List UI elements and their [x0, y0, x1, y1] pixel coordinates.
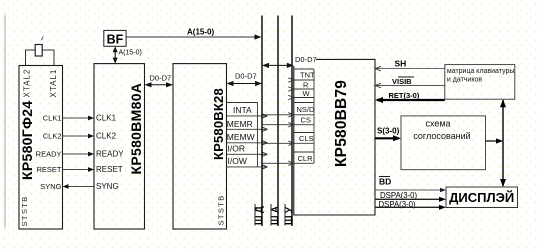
wire CLS to buses — [262, 142, 294, 144]
svg-text:XTAL2: XTAL2 — [23, 69, 32, 98]
svg-text:КР580ВК28: КР580ВК28 — [211, 88, 226, 160]
svg-text:D0-D7: D0-D7 — [295, 55, 317, 64]
crystal ZQ1 — [35, 45, 42, 57]
IC U2 CPU KR580VM80A — [94, 64, 145, 229]
svg-text:D0-D7: D0-D7 — [150, 74, 172, 83]
pin INTA wire — [227, 115, 267, 117]
IC U1 clock generator KR580GF24 — [19, 66, 63, 230]
pin W arrow — [288, 95, 294, 99]
wire CLR to buses — [262, 162, 294, 164]
wire CS to buses — [262, 124, 294, 126]
svg-text:RESET: RESET — [36, 165, 61, 174]
U4 pin cell column separator — [313, 69, 315, 163]
wire keyboard-display vertical — [502, 100, 504, 186]
svg-text:CLK2: CLK2 — [43, 132, 62, 141]
svg-text:CLR: CLR — [298, 154, 314, 163]
bus label SHD — [254, 204, 256, 226]
wire CLK2 U1-U2 — [63, 135, 94, 137]
matching circuit box — [401, 116, 486, 170]
svg-text:NS/D: NS/D — [297, 105, 316, 114]
faint page fold line — [4, 15, 6, 228]
wire RESET U1-U2 — [63, 169, 94, 171]
svg-text:CLK1: CLK1 — [43, 114, 62, 123]
pin MEMR wire — [227, 128, 267, 130]
bus D0-D7 U2-U3 double arrow — [146, 84, 172, 86]
svg-text:DSPA(3-0): DSPA(3-0) — [380, 191, 418, 200]
svg-text:A(15-0): A(15-0) — [119, 50, 142, 57]
bus A(15-0) BF-U2 vertical double arrow — [114, 48, 116, 62]
wire SYNG U2-U1 — [64, 186, 94, 188]
svg-text:RET(3-0): RET(3-0) — [389, 91, 420, 100]
bus D0-D7 data bus to U4 double arrow — [264, 64, 293, 66]
svg-text:КР580ВМ80А: КР580ВМ80А — [128, 83, 144, 175]
keyboard matrix box — [445, 65, 515, 100]
svg-text:ША: ША — [270, 204, 281, 225]
svg-text:матрица клавиатуры: матрица клавиатуры — [447, 68, 515, 75]
svg-text:INTA: INTA — [233, 105, 252, 115]
svg-text:W: W — [303, 89, 311, 98]
buffer BF box — [104, 30, 126, 46]
svg-text:ШД: ШД — [254, 204, 265, 225]
wire matching to vertical — [486, 140, 502, 142]
svg-text:КР580ВВ79: КР580ВВ79 — [333, 80, 350, 167]
svg-text:STSTB: STSTB — [217, 194, 226, 225]
svg-text:S(3-0): S(3-0) — [377, 127, 400, 136]
wire READY U1-U2 — [63, 153, 94, 155]
crystal tick mark — [42, 37, 44, 41]
svg-text:XTAL1: XTAL1 — [49, 69, 58, 98]
pin MEMW wire — [227, 142, 267, 144]
svg-text:CS: CS — [301, 116, 311, 125]
wire RET(3-0) — [377, 99, 445, 101]
svg-text:CLK2: CLK2 — [96, 132, 117, 141]
svg-text:SH: SH — [395, 59, 407, 69]
IC U3 system controller KR580VK28 — [173, 64, 227, 229]
svg-text:SYNG: SYNG — [40, 182, 61, 191]
crystal ZQ1 wire — [26, 50, 55, 66]
svg-text:BD: BD — [379, 177, 391, 187]
pin I/OW wire — [227, 166, 267, 168]
svg-text:КР580ГФ24: КР580ГФ24 — [19, 101, 35, 180]
data bus SHD — [261, 16, 263, 227]
svg-text:TNT: TNT — [300, 71, 315, 80]
svg-text:READY: READY — [96, 150, 124, 159]
svg-text:ДИСПЛЭЙ: ДИСПЛЭЙ — [449, 190, 514, 205]
svg-text:VISIB: VISIB — [392, 77, 412, 86]
pin I/OR wire — [227, 153, 267, 155]
address bus SHA — [277, 16, 279, 227]
control bus SHU — [291, 16, 293, 227]
pin R arrow — [288, 87, 294, 91]
U3 right pin cell column — [257, 103, 259, 167]
bus D0-D7 U3 to data bus double arrow — [228, 83, 261, 85]
wire NS/D to buses — [262, 114, 294, 116]
wire S(3-0) — [375, 137, 399, 139]
svg-text:RESET: RESET — [96, 165, 123, 174]
svg-text:и датчиков: и датчиков — [447, 76, 482, 83]
svg-text:BF: BF — [107, 33, 124, 47]
wire BD — [375, 189, 444, 191]
svg-text:соглосований: соглосований — [413, 131, 470, 141]
svg-text:CLK1: CLK1 — [96, 114, 117, 123]
svg-text:MEMR: MEMR — [227, 119, 253, 129]
svg-text:MEMW: MEMW — [227, 132, 255, 142]
wire A(15-0) BF to data bus — [126, 36, 259, 38]
wire VISIB — [375, 85, 445, 87]
wire CLK1 U1-U2 — [63, 117, 94, 119]
svg-text:A(15-0): A(15-0) — [187, 28, 214, 37]
svg-text:D0-D7: D0-D7 — [235, 72, 257, 81]
bus label SHU — [284, 204, 286, 226]
IC U4 keyboard/display controller KR580VV79 — [294, 59, 375, 215]
svg-text:I/OW: I/OW — [228, 156, 247, 166]
svg-text:STSTB: STSTB — [20, 195, 29, 226]
svg-text:схема: схема — [425, 119, 450, 129]
U4 pin cell borders — [294, 68, 314, 70]
pin TNT arrow — [288, 78, 294, 82]
svg-text:READY: READY — [36, 150, 62, 159]
bus label SHA — [270, 204, 272, 226]
svg-text:SYNG: SYNG — [96, 182, 119, 191]
svg-text:CLS: CLS — [299, 134, 314, 143]
display box — [446, 187, 518, 208]
svg-text:I/OR: I/OR — [228, 144, 245, 154]
wire SH — [375, 68, 445, 70]
